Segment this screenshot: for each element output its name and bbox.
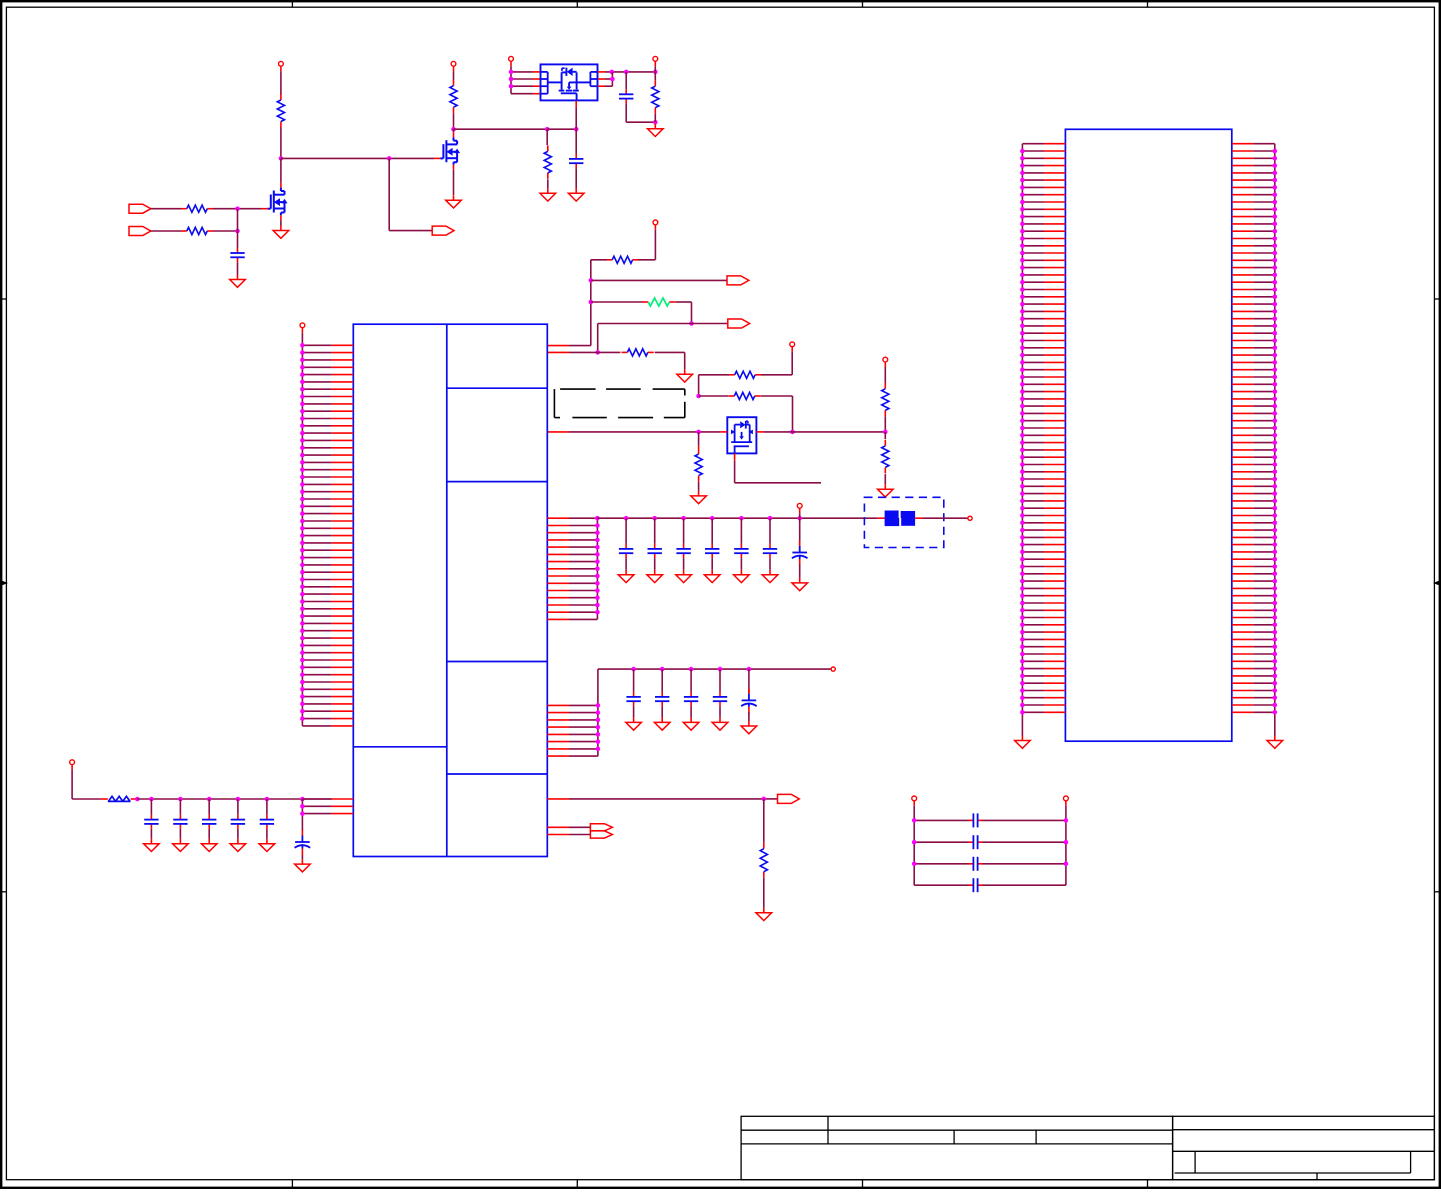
port P2 input — [129, 227, 151, 236]
wire bank1 cap3 drop — [683, 518, 685, 544]
resistor R4 — [450, 80, 457, 114]
capacitor C17 polarized — [792, 541, 808, 567]
ground at R14 — [756, 908, 772, 921]
capacitor C42 — [968, 835, 982, 849]
wire R5 to ground — [547, 179, 549, 188]
wire U3 pin row2 — [547, 351, 620, 353]
wire VCC4 to R6 — [654, 66, 656, 80]
wire Q2 source to ground — [453, 165, 455, 195]
wire U3 dual pin b — [547, 834, 590, 836]
wire U1 pin1 lead — [511, 71, 540, 73]
wire node G to C2 — [575, 129, 577, 154]
wire R7 to bus H — [591, 260, 607, 346]
junctions cap bank right — [1064, 818, 1069, 866]
node G junction — [574, 127, 579, 132]
node B junction — [235, 229, 240, 234]
wire U3 out pin net — [547, 798, 777, 800]
wire VCC5 to R7 — [638, 230, 655, 260]
resistor R8 — [621, 349, 653, 356]
wire node E to node F — [454, 128, 548, 130]
wire rail cap2 drop — [179, 799, 181, 815]
junctions J1 right bus — [1273, 149, 1278, 715]
ground at Q2 — [446, 195, 462, 208]
capacitor C34 — [231, 815, 245, 829]
junctions on U3 left bus — [300, 343, 305, 721]
wire bank2 rail — [598, 668, 831, 670]
capacitor C15 — [734, 544, 748, 558]
ground at C15 — [734, 570, 750, 583]
wire node C to Q1 drain — [280, 158, 282, 187]
ground at C31 — [144, 839, 160, 852]
port P4 output — [727, 276, 749, 285]
wire R10 to node M — [761, 396, 793, 432]
wire node N to R11 — [698, 432, 700, 454]
wire bank1 cap4 drop — [711, 518, 713, 544]
junctions on bank2 rail — [631, 667, 751, 672]
ground at C25 — [741, 721, 757, 734]
wire bank2 cap4 to ground — [719, 706, 721, 717]
wire bank2 cap1 drop — [633, 669, 635, 692]
ground at C14 — [704, 570, 720, 583]
ground at C13 — [676, 570, 692, 583]
capacitor C16 — [763, 544, 777, 558]
wire cap bank row1 — [914, 819, 1066, 821]
ground at C16 — [762, 570, 778, 583]
junctions on VCC3 bus — [509, 70, 514, 89]
capacitor C1 — [619, 89, 633, 103]
wire node I to R15 — [591, 301, 643, 303]
ground at C34 — [230, 839, 246, 852]
wire Q1 source to ground — [280, 215, 282, 225]
capacitor C24 — [713, 692, 727, 706]
wire P2 to R2 — [151, 230, 181, 232]
junctions on group2 bus — [596, 703, 601, 751]
ground at C3 — [230, 275, 246, 288]
wire U2 tab pin — [735, 453, 821, 482]
ground at C12 — [647, 570, 663, 583]
power node VCC12 — [1064, 796, 1069, 806]
ground at J1 left — [1015, 736, 1031, 749]
wire U3 gate pin net — [547, 431, 720, 433]
inductor L1 — [108, 796, 138, 801]
wire U1 pin4 lead — [511, 93, 540, 95]
wire bank2 cap1 to ground — [633, 706, 635, 717]
resistor R5 — [544, 145, 551, 179]
wire VCC1 to R3 — [280, 71, 282, 95]
wire VCC2 to R4 — [453, 71, 455, 80]
DNP dashed outline box — [554, 389, 684, 418]
junctions net U1 out — [610, 70, 658, 75]
wire rail cap4 to ground — [237, 829, 239, 839]
resistor R10 — [728, 392, 760, 399]
wire R12 to node O — [884, 416, 886, 432]
port P7 output a — [590, 824, 612, 831]
port P5 output — [728, 319, 750, 328]
node E junction — [451, 127, 456, 132]
ground at R6 — [648, 124, 664, 137]
mosfet package U2 — [727, 417, 756, 453]
title block left table — [741, 1116, 1173, 1179]
ground at C21 — [626, 717, 642, 730]
wire net U1out to C1 — [625, 72, 627, 89]
junctions on bank1 rail — [624, 516, 802, 521]
wire rail cap1 drop — [150, 799, 152, 815]
wire rail cap4 drop — [237, 799, 239, 815]
wire node F to R5 — [546, 129, 548, 145]
capacitor C44 — [968, 878, 982, 892]
resistor R12 — [882, 383, 889, 416]
power node VCC9 — [797, 503, 802, 513]
resistor R11 — [695, 454, 702, 476]
dual mosfet U1 — [541, 64, 598, 100]
capacitor C3 — [230, 248, 244, 262]
connector J1 body — [1065, 129, 1231, 741]
node Q junction — [762, 797, 767, 802]
wire rail cap3 drop — [208, 799, 210, 815]
capacitor C12 — [648, 544, 662, 558]
wire bank1 cap2 to ground — [654, 558, 656, 570]
resistor R2 — [181, 227, 213, 234]
wire R13 to ground — [884, 474, 886, 484]
capacitor C23 — [684, 692, 698, 706]
wire R14 to ground — [763, 878, 765, 908]
wire FB1 leads — [915, 517, 968, 519]
power node VCC5 — [653, 220, 658, 230]
node M junction — [790, 430, 795, 435]
wire U3 pin row1 — [547, 345, 591, 347]
wire node E to Q2 drain — [453, 129, 455, 137]
J1 right pin array + bus — [1232, 144, 1275, 736]
ground at R11 — [691, 491, 707, 504]
wire R3 to node C — [280, 127, 282, 158]
terminal node T1 — [968, 516, 972, 520]
wire U2 left pin — [720, 431, 727, 433]
wire bank1 cap1 to ground — [625, 558, 627, 570]
junctions on bottom rail — [149, 797, 305, 802]
wire R9 to node L — [699, 375, 729, 396]
wire R1 to Q1 gate — [213, 208, 268, 210]
wire C25 to ground — [748, 712, 750, 721]
power node VCC10 — [70, 760, 75, 770]
capacitor C35 — [260, 815, 274, 829]
ground at C32 — [173, 839, 189, 852]
wire rail cap5 to ground — [266, 829, 268, 839]
wire VCC7 to R12 — [884, 367, 886, 384]
wire bank1 cap5 drop — [740, 518, 742, 544]
terminal node T2 — [831, 667, 835, 671]
junctions on group1 bus — [595, 516, 600, 615]
junctions J1 left bus — [1020, 149, 1025, 715]
wire bank1 cap3 to ground — [683, 558, 685, 570]
border center arrow right — [1433, 581, 1440, 586]
wire bank2 cap2 drop — [661, 669, 663, 692]
wire R8 to ground — [655, 352, 685, 369]
wire U1 pin2 lead — [511, 78, 540, 80]
resistor R13 — [882, 440, 889, 474]
node C junction — [279, 156, 284, 161]
transistor Q1 — [268, 188, 288, 216]
wire node C to Q2 gate — [281, 157, 440, 159]
wire C36 to ground — [301, 856, 303, 860]
capacitor C21 — [626, 692, 640, 706]
wire bank2 cap2 to ground — [661, 706, 663, 717]
wire U1 pin3 lead — [511, 85, 540, 87]
ground at C2 — [568, 188, 584, 201]
transistor Q2 — [440, 137, 460, 165]
ground at Q1 — [273, 226, 289, 239]
wire cap bank row2 — [914, 841, 1066, 843]
wire VCC10 drop — [72, 770, 108, 799]
wire VCC9 drop — [799, 513, 801, 545]
node F junction — [545, 127, 550, 132]
wire R6 to ground node — [654, 114, 656, 123]
wire bank1 cap2 drop — [654, 518, 656, 544]
power node VCC11 — [912, 796, 917, 806]
wire bank1 cap6 to ground — [769, 558, 771, 570]
wire bank2 pcap drop — [748, 669, 750, 693]
capacitor C11 — [619, 544, 633, 558]
wire bank2 cap4 drop — [719, 669, 721, 692]
capacitor C32 — [173, 815, 187, 829]
junction C1/R6 node — [653, 120, 658, 125]
capacitor C31 — [144, 815, 158, 829]
node L junction — [696, 394, 701, 399]
wire rail cap5 drop — [266, 799, 268, 815]
wire C1 bottom loop — [626, 104, 655, 123]
wire R11 lead2 — [698, 476, 700, 491]
node N junction — [696, 430, 701, 435]
J1 left pin array + bus — [1022, 144, 1065, 736]
node K junction — [595, 350, 600, 355]
ground at R5 — [540, 188, 556, 201]
wire R15 to node J — [676, 302, 692, 324]
ground at C33 — [201, 839, 217, 852]
ground at R13 — [878, 484, 894, 497]
resistor R7 — [606, 256, 638, 263]
node O junction — [883, 430, 888, 435]
ground at C24 — [712, 717, 728, 730]
node J junction — [689, 321, 694, 326]
wire C17 to ground — [799, 565, 801, 578]
wire node A to C3 — [237, 209, 239, 248]
power node VCC2 — [451, 61, 456, 71]
capacitor C14 — [705, 544, 719, 558]
power node VCC3 — [509, 56, 514, 66]
wire cap bank row4 — [914, 884, 1066, 886]
capacitor C25 polarized — [741, 688, 757, 714]
ground at C11 — [618, 570, 634, 583]
wire U2 right pin — [756, 431, 885, 433]
power node VCC4 — [653, 56, 658, 66]
U3 right pin group2 + bus wire — [547, 669, 598, 756]
wire node O to R13 — [884, 432, 886, 439]
border center arrow left — [2, 581, 9, 586]
wire R4 to node E — [453, 113, 455, 129]
capacitor C2 — [569, 154, 583, 168]
port P8 output b — [590, 831, 612, 838]
wire C2 to ground — [575, 168, 577, 188]
wire bank1 cap5 to ground — [740, 558, 742, 570]
resistor R15 green — [642, 298, 675, 306]
wire U1 pin6 pin7 tie — [598, 72, 613, 86]
resistor R9 — [729, 371, 761, 378]
ground at C22 — [654, 717, 670, 730]
node D junction — [387, 156, 392, 161]
node I junction — [589, 300, 594, 305]
wire U1 out pin5 — [598, 71, 656, 73]
resistor R14 — [760, 843, 767, 878]
wire U1 tab pin — [575, 101, 577, 130]
wire node F to node G — [547, 128, 576, 130]
wire cap bank row3 — [914, 863, 1066, 865]
wire C3 to ground — [237, 262, 239, 274]
wire node J to node K — [598, 324, 692, 353]
wire bank2 cap3 drop — [690, 669, 692, 692]
capacitor C13 — [676, 544, 690, 558]
wire cap bank left bus — [913, 806, 915, 885]
port P3 output — [432, 226, 454, 235]
wire node H to port P4 — [591, 279, 727, 281]
resistor R6 — [652, 80, 659, 114]
wire bank1 rail — [597, 517, 884, 519]
capacitor C43 — [968, 857, 982, 871]
ground at C23 — [683, 717, 699, 730]
IC U3 body — [353, 324, 547, 856]
wire rail to U3 — [137, 798, 331, 800]
power node VCC6 — [790, 342, 795, 352]
node P junction — [135, 797, 140, 802]
wire bank1 cap6 drop — [769, 518, 771, 544]
wire cap bank right bus — [1065, 806, 1067, 885]
U3 bottom-left pins + bus — [302, 799, 353, 831]
wire VCC3 bus — [510, 66, 512, 94]
ground at C17 — [792, 578, 808, 591]
ground at R8 — [677, 369, 693, 382]
node A junction — [235, 206, 240, 211]
wire bank1 cap4 to ground — [711, 558, 713, 570]
port P1 input — [129, 204, 151, 213]
U3 left pin array + bus wire — [302, 333, 353, 726]
wire bank1 cap1 drop — [625, 518, 627, 544]
wire R2 to node B — [213, 230, 238, 232]
capacitor C33 — [202, 815, 216, 829]
U3 right pin group1 + bus wire — [547, 518, 597, 619]
ground at C36 — [295, 859, 311, 872]
port P6 output — [778, 794, 800, 803]
ground at J1 right — [1267, 736, 1283, 749]
wire VCC6 to R9 — [761, 352, 792, 375]
power node VCC7 — [883, 357, 888, 367]
capacitor C41 — [968, 813, 982, 827]
capacitor C22 — [655, 692, 669, 706]
junctions bottom-left bus — [300, 804, 305, 816]
wire node D to port P3 — [389, 158, 432, 230]
node H junction — [589, 278, 594, 283]
capacitor C36 polarized — [295, 830, 311, 856]
wire bank2 cap3 to ground — [690, 706, 692, 717]
wire node J to port P5 — [692, 323, 728, 325]
ground at C35 — [259, 839, 275, 852]
power node VCC1 — [279, 61, 284, 71]
wire node Q to R14 — [763, 799, 765, 843]
power node VCC8 — [300, 323, 305, 333]
wire node L to R10 — [699, 395, 729, 397]
resistor R1 — [181, 205, 213, 212]
junction U1 pin6 — [610, 77, 615, 82]
wire P1 to R1 — [151, 208, 181, 210]
wire U3 dual pin a — [547, 826, 590, 828]
ferrite bead FB1 in DNP box — [864, 497, 943, 547]
wire rail cap1 to ground — [150, 829, 152, 839]
wire rail cap2 to ground — [179, 829, 181, 839]
resistor R3 — [277, 94, 284, 128]
wire rail cap3 to ground — [208, 829, 210, 839]
junctions cap bank left — [912, 818, 917, 866]
title block right table — [1173, 1116, 1435, 1179]
